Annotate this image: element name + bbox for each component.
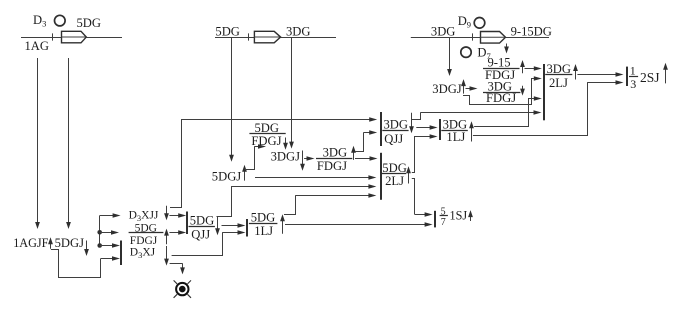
rotation arrow of 3DG/2LJ bbox=[573, 64, 578, 80]
spindle arrow of 1SJ bbox=[468, 210, 473, 221]
wire: drop from 9-15DG pulley to 9-15 FDGJ bbox=[504, 44, 509, 54]
svg-text:2SJ: 2SJ bbox=[640, 70, 660, 85]
wire: main shaft line from motor D3 bbox=[21, 37, 122, 39]
wire: drop from 3DG to 3DGJ (right) bbox=[447, 37, 452, 76]
wire: 5DGJ step up to 5DG/FDGJ bbox=[245, 146, 255, 169]
wire: second shaft line bbox=[215, 37, 336, 39]
rotation arrow of D3XJ bbox=[164, 246, 169, 266]
wire: bus branch into D3XJJ bbox=[100, 213, 121, 218]
svg-text:5DG: 5DG bbox=[255, 121, 280, 135]
input bar of block 3DG/2LJ bbox=[543, 64, 545, 120]
rotation arrow of 3DG/FDGJ (middle) bbox=[351, 146, 356, 160]
wire: 3DG/1LJ line up to 2SJ bbox=[473, 82, 588, 135]
svg-text:FDGJ: FDGJ bbox=[486, 91, 516, 105]
wire: 3DGJ into 3DG/FDGJ (right) bbox=[466, 86, 478, 91]
input bar of block 5DG/QJJ bbox=[186, 212, 188, 235]
wire: 5DG/QJJ step up bbox=[217, 186, 232, 216]
svg-text:3: 3 bbox=[630, 77, 636, 91]
svg-text:QJJ: QJJ bbox=[191, 228, 210, 242]
svg-text:5DG: 5DG bbox=[77, 16, 102, 30]
block 5DG/FDGJ (middle) fraction bar bbox=[249, 133, 285, 135]
block 2SJ ratio bar bbox=[629, 76, 638, 78]
svg-text:3DG: 3DG bbox=[443, 117, 468, 131]
wire: bus branch into D3XJ bar bbox=[100, 243, 120, 248]
wire arrowhead: 5DGJ into 5DG/FDGJ bbox=[255, 144, 267, 149]
svg-text:1AGJF: 1AGJF bbox=[13, 236, 48, 250]
wire: 5DG/FDGJ down into 3DGJ (middle) bbox=[283, 138, 288, 150]
svg-text:FDGJ: FDGJ bbox=[251, 134, 281, 148]
wire: drop from 5DG pulley to 5DGJ bbox=[66, 58, 71, 229]
svg-text:3DGJ: 3DGJ bbox=[432, 82, 461, 96]
svg-text:D3XJ: D3XJ bbox=[130, 247, 156, 261]
input bar of block 5DG/2LJ bbox=[380, 153, 382, 200]
wire: 3DGJ step line to 3DG/2LJ bbox=[463, 78, 532, 105]
svg-text:5DGJ: 5DGJ bbox=[55, 236, 84, 250]
svg-text:5DG: 5DG bbox=[190, 214, 215, 228]
wire: long line into 3DG/QJJ bbox=[182, 117, 378, 122]
input bar of block 3DG/1LJ bbox=[439, 119, 441, 140]
wire: drop from 5DG to 5DGJ block bbox=[229, 37, 234, 162]
block 3DG/2LJ fraction bar bbox=[545, 74, 572, 76]
svg-text:3DG: 3DG bbox=[323, 146, 348, 160]
spindle arrow of 2SJ bbox=[663, 63, 668, 84]
block 5DG/2LJ fraction bar bbox=[381, 173, 406, 175]
rotation arrow of 3DG/QJJ bbox=[409, 113, 414, 133]
wire arrowhead: loop into D3XJ bar bbox=[101, 256, 120, 261]
svg-text:3DG: 3DG bbox=[286, 24, 311, 38]
wire: 5DG/1LJ long line into 5DG/2LJ bbox=[295, 193, 376, 198]
svg-text:2LJ: 2LJ bbox=[549, 76, 568, 90]
wire: D3XJ line into 5DG/1LJ bbox=[222, 230, 245, 235]
svg-text:5DGJ: 5DGJ bbox=[212, 169, 241, 183]
svg-text:FDGJ: FDGJ bbox=[130, 235, 158, 247]
block 3DG/QJJ fraction bar bbox=[382, 130, 408, 132]
wire: 3DG/1LJ line up to 3DG/2LJ bbox=[474, 98, 528, 127]
svg-text:1LJ: 1LJ bbox=[254, 224, 273, 238]
wire arrowhead: 5DG/2LJ up into 3DG/1LJ bbox=[415, 134, 438, 139]
svg-text:5DG: 5DG bbox=[382, 161, 407, 175]
block 5DG/QJJ fraction bar bbox=[189, 226, 215, 228]
wire: 5DG/QJJ into 5DG/1LJ bbox=[222, 223, 246, 228]
input bar of block 1SJ bbox=[434, 211, 436, 228]
svg-text:5DG: 5DG bbox=[251, 210, 276, 224]
rotation arrow of 3DG/1LJ bbox=[469, 121, 474, 141]
input bar of block 5DG/1LJ bbox=[246, 219, 248, 237]
wire: 5DGJ loop down and around to D3XJ bbox=[51, 250, 101, 278]
svg-text:9-15DG: 9-15DG bbox=[511, 24, 552, 38]
svg-text:QJJ: QJJ bbox=[384, 132, 403, 146]
rotation arrow of 1AGJF bbox=[48, 237, 53, 249]
rotation arrow of 3DGJ (middle) bbox=[300, 151, 305, 171]
tick mark on third shaft bbox=[472, 33, 474, 40]
wire: arrow down to lead-screw symbol bbox=[180, 263, 185, 274]
wire arrowhead: 3DG/1LJ into 3DG/2LJ bbox=[528, 96, 541, 101]
svg-text:2LJ: 2LJ bbox=[385, 174, 404, 188]
wire: 5DG/2LJ tap up bbox=[412, 136, 415, 173]
wire: 3DG/2LJ output into 2SJ bbox=[577, 72, 623, 77]
junction dot upper bbox=[97, 230, 102, 235]
wire: D3XJ output up to 5DG/1LJ bbox=[172, 232, 223, 255]
wire arrowhead: 3DGJ line into 3DG/2LJ bbox=[532, 76, 542, 81]
wire: drop from 3DG to 3DGJ block bbox=[289, 37, 294, 149]
block 5DG/1LJ fraction bar bbox=[249, 223, 278, 225]
rotation arrow of D3XJJ bbox=[164, 206, 169, 220]
wire: 5DG/FDGJ into 5DG/QJJ bbox=[169, 230, 186, 235]
svg-text:1SJ: 1SJ bbox=[450, 209, 468, 223]
wire: 3DG/FDGJ step up toward 3DG/QJJ bbox=[356, 133, 364, 152]
svg-text:1LJ: 1LJ bbox=[446, 130, 465, 144]
wire: 3DGJ into 3DG/FDGJ (middle) bbox=[304, 156, 314, 161]
wire arrowhead: 3DG/FDGJ into 3DG/QJJ bbox=[363, 130, 377, 135]
wire: 3DG/FDGJ output into 5DG/2LJ bbox=[355, 156, 378, 161]
motor symbol D7 circle bbox=[461, 47, 471, 57]
svg-text:3DGJ: 3DGJ bbox=[271, 150, 300, 164]
wire: drop from 1AG shaft to 1AGJF bbox=[35, 58, 40, 229]
motor symbol D9 circle bbox=[474, 18, 485, 29]
wire: D3XJJ into 5DG/QJJ bbox=[169, 213, 186, 218]
input bar of D3XJ bbox=[120, 241, 122, 266]
wire: 5DG/QJJ long line into 5DG/2LJ bbox=[231, 184, 376, 189]
block 5DG/FDGJ (bottom) fraction bar bbox=[129, 232, 164, 234]
svg-text:1: 1 bbox=[630, 64, 636, 78]
motor symbol D3 circle bbox=[55, 15, 66, 26]
rotation arrow of 5DGJ (middle) bbox=[242, 165, 247, 181]
svg-text:7: 7 bbox=[441, 217, 446, 228]
input bar of block 3DG/QJJ bbox=[380, 112, 382, 146]
block 3DG/FDGJ (right) fraction bar bbox=[483, 92, 520, 94]
block 3DG/FDGJ (middle) fraction bar bbox=[316, 158, 352, 160]
wire: D3XJ step to lead screw bbox=[170, 263, 183, 265]
svg-text:D3XJJ: D3XJJ bbox=[129, 210, 159, 224]
rotation arrow of 3DG/FDGJ (right) bbox=[520, 86, 525, 96]
rotation arrow of 9-15/FDGJ bbox=[520, 60, 525, 73]
wire: 5DG/1LJ long line into 5/7 1SJ bbox=[285, 222, 433, 227]
wire: 9-15/FDGJ output into 3DG/2LJ bbox=[525, 66, 542, 71]
svg-text:FDGJ: FDGJ bbox=[317, 159, 347, 173]
wire arrowhead: 3DG/1LJ into 2SJ bbox=[588, 80, 624, 85]
wire: distribution bus bbox=[99, 216, 101, 246]
belt-pulley symbol 5DG on D3 shaft bbox=[62, 31, 87, 43]
rotation arrow of 5DG/FDGJ (bottom) bbox=[164, 229, 169, 245]
wire arrowhead: 5DG/2LJ down into 5/7 1SJ bbox=[415, 212, 433, 217]
lead-screw terminal symbol (circle with dot and whiskers) bbox=[174, 280, 191, 297]
svg-text:1AG: 1AG bbox=[25, 39, 50, 53]
tick mark on second shaft bbox=[248, 33, 250, 40]
wire: bus branch into 5DG/FDGJ (bottom) bbox=[100, 230, 119, 235]
wire: 5DG/1LJ step up bbox=[284, 196, 296, 215]
block 9-15/FDGJ fraction bar bbox=[483, 68, 520, 70]
svg-text:3DG: 3DG bbox=[431, 24, 456, 38]
wire: 5DGJ long line into 5DG/2LJ bbox=[255, 175, 376, 180]
rotation arrow of 5DGJ (left) bbox=[84, 241, 89, 257]
junction dot lower bbox=[97, 243, 102, 248]
wire: 5DG/2LJ tap down bbox=[412, 179, 415, 215]
tick mark on D3 shaft bbox=[52, 33, 54, 40]
block 3DG/1LJ fraction bar bbox=[441, 130, 468, 132]
rotation arrow of 5DG/2LJ bbox=[406, 166, 411, 183]
belt-pulley symbol 9-15DG bbox=[481, 32, 506, 44]
wire: 3DG/QJJ output into 3DG/1LJ bbox=[416, 125, 437, 130]
svg-text:5DG: 5DG bbox=[215, 24, 240, 38]
wire: 3DG/QJJ step to long output line bbox=[412, 112, 421, 119]
rotation arrow of 5DG/QJJ bbox=[215, 216, 220, 235]
svg-text:3DG: 3DG bbox=[384, 117, 409, 131]
svg-text:3DG: 3DG bbox=[547, 62, 572, 76]
wire: left rail down to D3XJJ bbox=[170, 119, 182, 208]
rotation arrow of 5DG/1LJ bbox=[280, 214, 285, 234]
belt-pulley symbol on second shaft bbox=[254, 31, 280, 43]
wire: 3DG/QJJ long line into 3DG/2LJ bbox=[421, 110, 542, 115]
input bar of block 2SJ bbox=[626, 67, 628, 86]
rotation arrow of 3DGJ (right) bbox=[461, 79, 466, 94]
wire: third shaft line from motor D9 bbox=[411, 37, 549, 39]
block 1SJ ratio bar bbox=[440, 215, 448, 217]
